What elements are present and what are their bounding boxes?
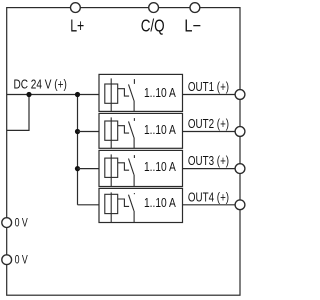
svg-text:1..10 A: 1..10 A	[144, 85, 176, 100]
wire: channel 2 output to terminal	[183, 131, 241, 133]
svg-text:DC 24 V (+): DC 24 V (+)	[14, 77, 67, 92]
channel 3 box (electronic breaker unit)	[99, 150, 183, 186]
terminal L+ on top edge	[71, 3, 81, 13]
channel 4 box (electronic breaker unit)	[99, 188, 183, 222]
fuse F2 (IEC fuse symbol)	[105, 117, 118, 148]
fuse F1 (IEC fuse symbol)	[105, 78, 118, 111]
svg-text:0 V: 0 V	[15, 216, 29, 230]
svg-text:L+: L+	[70, 16, 84, 36]
svg-text:OUT3 (+): OUT3 (+)	[188, 153, 229, 168]
terminal OUT2 (+) on right edge	[235, 127, 245, 137]
channel 1 box (electronic breaker unit)	[99, 74, 183, 111]
svg-text:C/Q: C/Q	[141, 16, 165, 36]
wire: stub bus to channel 2	[78, 131, 100, 133]
wire: stub bus to channel 4	[78, 204, 100, 206]
terminal 0V (second) on left edge	[2, 255, 12, 265]
svg-text:1..10 A: 1..10 A	[144, 195, 176, 210]
wire: vertical distribution bus	[77, 95, 79, 205]
wire: channel 3 output to terminal	[183, 168, 241, 170]
switch S1 (electronic switch contact)	[129, 79, 135, 111]
trip linkage fuse F4 to switch S4	[118, 199, 129, 206]
node: junction dot on DC 24V line at loop branch	[26, 92, 31, 97]
wire: DC 24V feed from left edge to channel box 1	[7, 94, 99, 96]
terminal OUT1 (+) on right edge	[235, 90, 245, 100]
outer module box	[7, 8, 240, 296]
svg-text:OUT4 (+): OUT4 (+)	[188, 189, 229, 204]
wire: channel 1 output to terminal	[183, 94, 241, 96]
svg-text:L−: L−	[184, 16, 201, 36]
trip linkage fuse F3 to switch S3	[118, 163, 129, 170]
terminal L- on top edge	[190, 3, 200, 13]
switch S2 (electronic switch contact)	[129, 118, 135, 148]
svg-text:1..10 A: 1..10 A	[144, 159, 176, 174]
fuse F3 (IEC fuse symbol)	[105, 154, 118, 186]
wire: stub bus to channel 3	[78, 168, 100, 170]
node: junction dot bus / channel 2 stub	[75, 129, 80, 134]
fuse F4 (IEC fuse symbol)	[105, 192, 118, 222]
terminal 0V (first) on left edge	[2, 218, 12, 228]
terminal OUT3 (+) on right edge	[235, 164, 245, 174]
svg-text:0 V: 0 V	[15, 253, 29, 267]
wire: redundant feed loop (down from node, left along bottom to module edge)	[7, 95, 29, 131]
channel 2 box (electronic breaker unit)	[99, 113, 183, 148]
switch S4 (electronic switch contact)	[129, 193, 135, 222]
terminal C/Q on top edge	[149, 3, 159, 13]
wire: channel 4 output to terminal	[183, 204, 241, 206]
trip linkage fuse F2 to switch S2	[118, 126, 129, 133]
node: junction dot bus / channel 3 stub	[75, 166, 80, 171]
svg-text:OUT2 (+): OUT2 (+)	[188, 116, 229, 131]
svg-text:OUT1 (+): OUT1 (+)	[188, 79, 229, 94]
trip linkage fuse F1 to switch S1	[118, 89, 129, 96]
node: junction dot bus / channel 1 stub	[75, 92, 80, 97]
switch S3 (electronic switch contact)	[129, 155, 135, 186]
terminal OUT4 (+) on right edge	[235, 200, 245, 210]
svg-text:1..10 A: 1..10 A	[144, 122, 176, 137]
